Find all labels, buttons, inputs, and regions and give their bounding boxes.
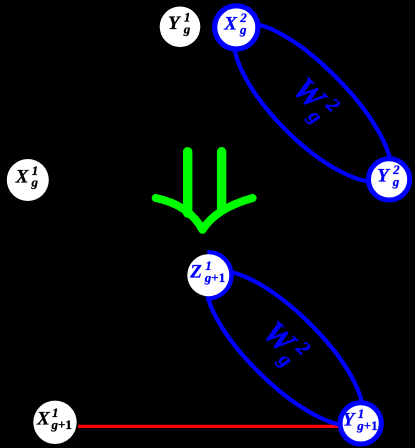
svg-text:g+1: g+1	[51, 417, 72, 432]
svg-text:g+1: g+1	[356, 418, 377, 433]
svg-text:Z: Z	[189, 262, 202, 283]
svg-text:X: X	[15, 166, 30, 187]
svg-text:g: g	[183, 22, 191, 37]
svg-text:g: g	[239, 22, 247, 37]
svg-text:g: g	[392, 174, 400, 189]
svg-text:g: g	[31, 175, 39, 190]
svg-text:g+1: g+1	[204, 270, 225, 285]
svg-text:X: X	[223, 14, 238, 35]
svg-text:X: X	[36, 409, 51, 430]
